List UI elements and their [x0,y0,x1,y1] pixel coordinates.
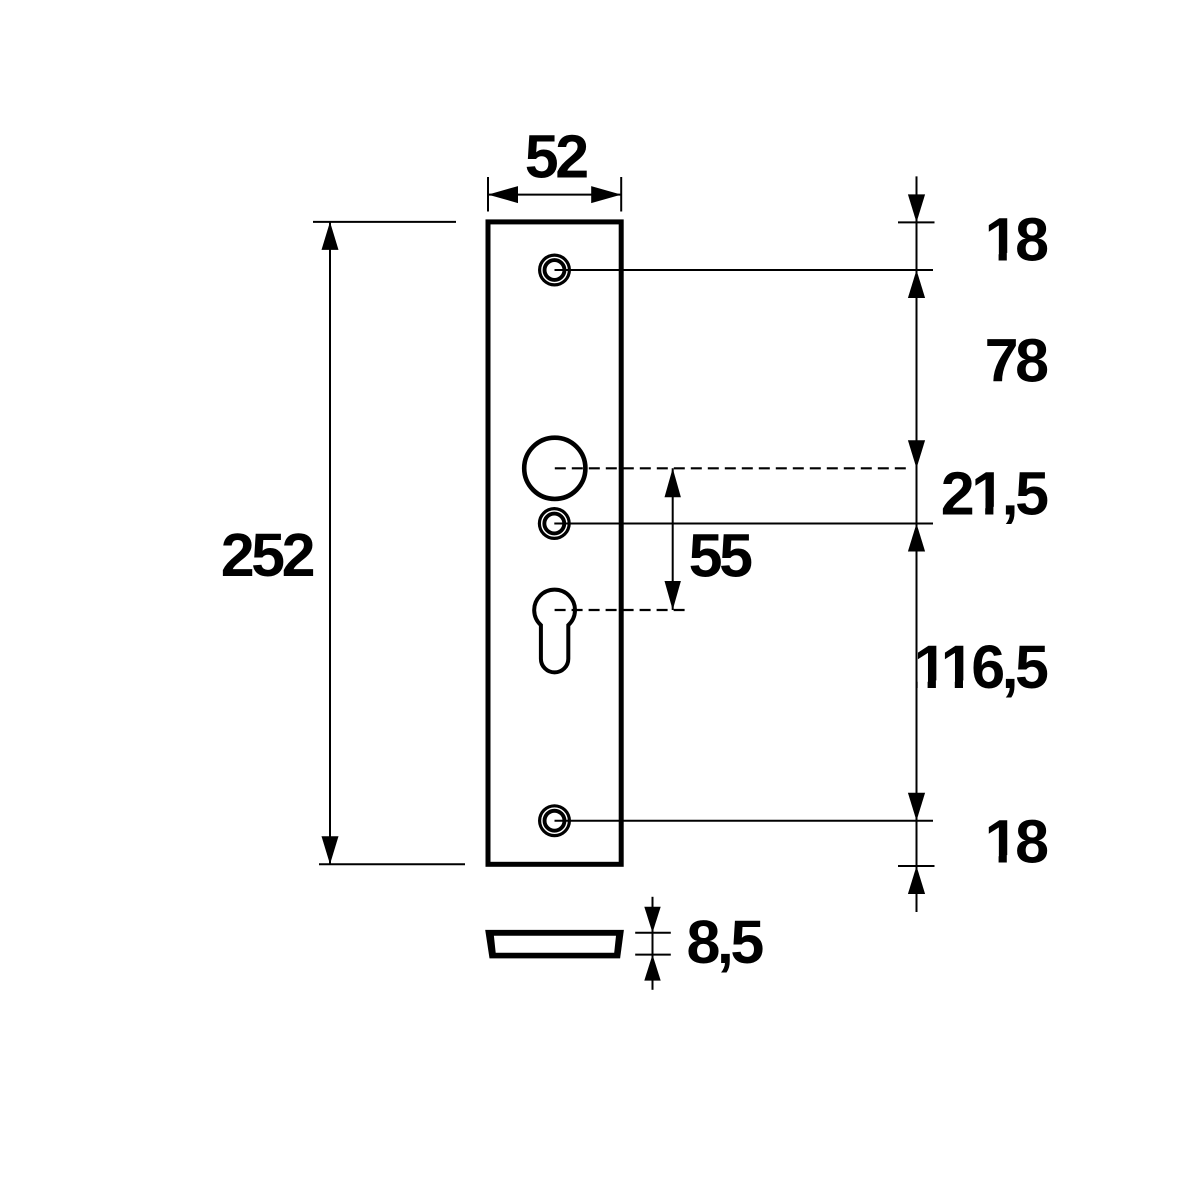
dimension 252: top extension line [313,221,456,223]
chain arrowhead up to plate bottom [908,866,925,894]
chain arrowhead up to top screw line [908,270,925,298]
svg-text:78: 78 [985,326,1048,394]
dimension 52: right arrowhead [591,186,621,203]
leader line from top screw hole [555,269,934,271]
chain arrowhead up to middle screw line [908,524,925,552]
leader line from middle screw hole [554,523,933,525]
right dimension chain line [916,176,918,912]
dimension 8,5: top tick [635,932,671,934]
label 18 bottom: serif masks [987,855,1017,865]
top screw hole [538,254,571,287]
svg-text:252: 252 [221,521,314,589]
chain arrowhead down to handle centre [908,440,925,468]
svg-text:18: 18 [985,206,1048,274]
dimension 8,5: lower arrowhead pointing up [644,955,660,981]
svg-text:18: 18 [985,808,1048,876]
bottom screw hole [538,804,571,837]
side profile view of plate [485,930,624,959]
label 116,5: serif masks [918,680,973,690]
dimension 252: top arrowhead [322,222,339,250]
label 18 top: serif masks [987,253,1017,263]
dimension 252: bottom extension line [319,863,465,865]
dimension 252: bottom arrowhead [322,836,339,864]
dimension 8,5: bottom tick [635,954,671,956]
svg-text:8,5: 8,5 [687,908,764,976]
dimension 55: top arrowhead [665,468,681,497]
dimension 8,5: dimension line [652,897,654,990]
plate front view outline [488,222,621,864]
svg-text:55: 55 [689,521,752,589]
svg-text:21,5: 21,5 [941,459,1048,527]
chain tick at plate bottom [898,865,935,867]
dimension 52: left arrowhead [488,186,518,203]
chain arrowhead down to bottom screw line [908,793,925,821]
leader line from bottom screw hole [555,820,934,822]
svg-text:116,5: 116,5 [914,633,1048,701]
dimension 8,5: upper arrowhead pointing down [644,907,660,933]
dimension 55: dimension line [672,468,674,610]
dimension 52: extension ticks [487,177,489,212]
dashed centre line of handle hole [555,467,908,469]
euro profile cylinder keyhole [534,590,575,673]
dashed centre line of keyhole [555,609,686,611]
middle screw hole [538,507,571,540]
label 21,5: serif masks [974,507,1004,517]
dimension 55: bottom arrowhead [665,581,681,610]
dimension 252: dimension line [329,222,331,864]
dimension 52: dimension line [488,194,621,196]
handle hole circle [524,438,585,499]
svg-text:52: 52 [525,122,587,190]
chain arrowhead down to plate top [908,194,925,222]
chain tick at plate top [898,221,935,223]
